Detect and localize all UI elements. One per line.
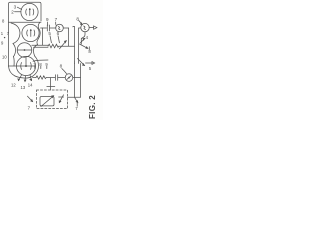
cluster inner scallop left of gauge B2 xyxy=(11,23,20,44)
pin arrowhead left xyxy=(18,79,20,81)
lamp G1 circle xyxy=(56,24,64,32)
bottom wire to junction xyxy=(46,77,55,79)
switch contact arrowhead xyxy=(86,47,88,49)
label 6 leader row B xyxy=(58,36,59,43)
lamp G3 needle xyxy=(67,76,71,80)
gauge B2 pivot dot xyxy=(30,29,32,31)
dashed control box xyxy=(37,90,68,109)
gauge B4 pin left xyxy=(19,75,22,81)
label 3 leader gauge B1 xyxy=(17,7,21,9)
box inner tick xyxy=(59,96,64,98)
capacitor C2 right plate xyxy=(57,75,59,81)
wire row B pair upper from gauge B3 xyxy=(32,44,48,46)
gauge B4 inner left arc xyxy=(20,63,23,70)
lamp G3 circle xyxy=(65,74,73,82)
label 8 leader arrow to AC source xyxy=(79,21,82,25)
node output wire xyxy=(86,62,93,64)
svg-text:3: 3 xyxy=(14,4,17,9)
drop arrow from junction xyxy=(75,97,78,102)
gauge B1 inner left arc xyxy=(25,9,28,15)
gauge B3 circle xyxy=(17,43,32,58)
junction wire at switch node xyxy=(75,62,79,64)
gauge B4 inner right arc xyxy=(30,63,33,70)
cluster scallop right of gauge B4 xyxy=(15,57,39,79)
capacitor C1 right plate xyxy=(49,25,51,31)
wire row B after resistor xyxy=(59,45,75,47)
AC output wire xyxy=(89,27,93,29)
gauge B3 horizontal axis xyxy=(18,49,32,51)
gauge B1 pivot dot xyxy=(29,8,31,10)
label 2 leader gauge B1 xyxy=(15,11,21,13)
drop contact tick xyxy=(76,103,78,106)
svg-text:8: 8 xyxy=(76,16,79,21)
wire row B pair lower xyxy=(34,46,49,48)
svg-text:9: 9 xyxy=(46,17,49,22)
V2 top hook xyxy=(73,25,75,27)
gauge B2 inner right arc xyxy=(33,30,36,36)
pin arrowhead right xyxy=(30,79,32,81)
label 9 leader row A first xyxy=(46,22,48,25)
gauge B2 needle xyxy=(30,30,32,37)
vertical wire V5 xyxy=(80,64,82,98)
box inner element arrowhead xyxy=(59,101,61,103)
AC source bottom lead V4 upper xyxy=(81,32,85,44)
switch arm diagonal to contact xyxy=(80,44,88,48)
variable transformer body xyxy=(40,97,54,106)
svg-text:14: 14 xyxy=(28,83,33,88)
selector arm diagonal at node xyxy=(78,59,85,66)
gauge B2 circle xyxy=(22,24,39,41)
cluster top box bottom edge xyxy=(9,21,42,23)
node output open arrowhead xyxy=(92,62,95,65)
gauge B4 pivot dot xyxy=(25,65,27,67)
gauge B4 right leader line xyxy=(33,60,48,61)
label 5 leader row B xyxy=(50,36,51,43)
bottom output wire y97 xyxy=(68,96,81,98)
gauge B2 inner left arc xyxy=(26,30,29,36)
resistor R2 zigzag xyxy=(36,76,46,79)
instrument cluster case top box xyxy=(9,2,42,66)
wiper arrowhead xyxy=(83,38,85,40)
wire lamp G3 to corner xyxy=(73,77,81,79)
AC source squiggle xyxy=(84,26,86,30)
gauge B4 circle xyxy=(16,56,35,75)
label 8 leader to lamp G3 xyxy=(62,69,67,74)
svg-text:13: 13 xyxy=(21,85,26,90)
capacitor C2 left plate xyxy=(55,75,57,81)
svg-text:8: 8 xyxy=(60,64,63,69)
cluster case bottom left curve xyxy=(9,66,16,76)
contact tick xyxy=(88,47,90,50)
switch arm S1 diagonal xyxy=(60,41,67,49)
resistor R1 zigzag row B xyxy=(48,44,59,48)
label 8 leader arrowhead xyxy=(81,23,83,25)
svg-text:10: 10 xyxy=(2,55,7,60)
bottom branch wire left xyxy=(33,77,37,79)
wire row A lamp to corner xyxy=(63,27,68,29)
AC source G2 circle xyxy=(81,23,89,31)
svg-text:6: 6 xyxy=(57,31,60,36)
wire AC source left lead xyxy=(79,27,81,29)
gauge B4 needle xyxy=(25,58,27,66)
svg-text:5: 5 xyxy=(48,31,51,36)
gauge B1 inner right arc xyxy=(32,9,35,15)
vertical wire V2 xyxy=(74,27,76,62)
wire row A from cluster xyxy=(41,27,47,29)
gauge B1 circle xyxy=(21,3,38,20)
cluster scallop right of gauge B2 xyxy=(37,22,40,44)
wire gauge B4 to case left xyxy=(9,65,17,67)
pin tick a xyxy=(34,66,36,68)
dot left margin xyxy=(4,37,5,38)
svg-text:2: 2 xyxy=(11,10,14,15)
selector arrowhead xyxy=(83,64,85,66)
gauge B4 horizontal axis xyxy=(17,65,35,67)
pin arrowhead mid xyxy=(24,80,26,82)
box inner element line xyxy=(59,95,63,103)
lamp G3 dot xyxy=(68,77,70,79)
variable transformer arrow xyxy=(41,96,54,107)
gauge B4 pin right xyxy=(30,75,32,81)
drop arrowhead xyxy=(76,101,78,103)
svg-text:7: 7 xyxy=(55,17,58,22)
lamp G1 squiggle xyxy=(58,27,60,30)
cluster inner scallop left of gauge B4 xyxy=(13,57,16,67)
AC output open arrowhead xyxy=(94,26,97,29)
cluster scallop right of gauge B3 xyxy=(34,45,38,57)
switch S1 arrowhead xyxy=(65,41,67,43)
pin tick c xyxy=(46,66,48,68)
wire row A to lamp xyxy=(50,27,56,29)
capacitor C1 left plate xyxy=(46,25,48,31)
tick on drop wire xyxy=(47,86,55,88)
wiper arrow on V4 xyxy=(80,38,85,43)
junction drop to dashed box xyxy=(50,78,52,90)
cluster inner scallop left of gauge B3 xyxy=(13,44,16,57)
vertical wire V0 xyxy=(42,28,44,45)
variable transformer arrowhead xyxy=(52,96,54,98)
arrow into box left xyxy=(28,96,33,101)
vertical wire V1 xyxy=(68,28,70,46)
svg-text:FIG. 2: FIG. 2 xyxy=(88,95,97,119)
pin tick b xyxy=(40,66,42,68)
gauge B4 pin mid xyxy=(24,76,27,82)
arrow into box left head xyxy=(31,100,33,102)
wire capacitor to lamp G3 xyxy=(58,77,65,79)
gauge B3 pivot dot xyxy=(24,49,26,51)
vertical V2 lower segment xyxy=(74,64,76,98)
label 7 leader row A second xyxy=(55,22,57,25)
vertical wire V3 xyxy=(78,28,80,62)
svg-text:12: 12 xyxy=(11,83,16,88)
gauge B1 needle xyxy=(29,9,31,16)
